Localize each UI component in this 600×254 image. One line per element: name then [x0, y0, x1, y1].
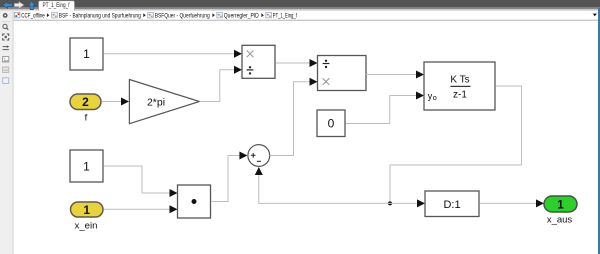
wire: junction to sum (minus input): [255, 167, 390, 203]
window right edge: [598, 8, 600, 254]
back arrow: [3, 2, 13, 9]
svg-text:1: 1: [557, 198, 564, 212]
toolbar separator: [2, 20, 11, 23]
wire: D:1 to outport: [480, 199, 544, 207]
toolbar icon: annotation image: [3, 57, 9, 62]
wire: integrator output feedback: [390, 86, 522, 203]
inport 1 x_ein: [71, 202, 104, 232]
product block: [178, 185, 211, 218]
tab PT_1_Eing_f: [39, 1, 75, 11]
wire: divide to divide2 input 1: [276, 59, 318, 67]
wire: f to gain: [102, 98, 130, 106]
svg-text:o: o: [433, 93, 437, 102]
wire: product to sum (plus input): [211, 152, 248, 202]
wire: constant 0 to integrator y0: [346, 92, 424, 124]
svg-text:D:1: D:1: [443, 199, 460, 211]
wire: junction to D:1: [390, 199, 425, 207]
breadcrumb item: BSF - Bahnplanung und Spurfuehrung: [52, 12, 146, 19]
breadcrumb item: Querregler_PID: [217, 12, 264, 19]
junction: [388, 201, 392, 205]
up arrow: [28, 1, 35, 10]
gain block 2*pi: [129, 80, 199, 124]
toolbar icon: annotation box (disabled): [3, 67, 9, 72]
svg-text:1: 1: [83, 203, 90, 217]
sum block: [248, 145, 270, 167]
toolbar icon: fit to view: [3, 34, 9, 40]
wire: sum to divide2 input 2: [270, 78, 318, 156]
divide block U2 (÷ over x): [318, 56, 367, 91]
inport 2 f: [70, 94, 101, 124]
svg-text:K Ts: K Ts: [450, 75, 469, 86]
forward arrow: [14, 2, 24, 9]
constant block 1 (top): [70, 38, 103, 70]
wire: divide2 to integrator: [366, 71, 424, 79]
svg-text:f: f: [85, 113, 88, 124]
toolbar icon: signal lines: [3, 45, 9, 49]
breadcrumb item: CCF_offline: [14, 12, 49, 19]
left toolbar: [0, 11, 14, 254]
svg-text:BSFQuer - Querfuehrung: BSFQuer - Querfuehrung: [155, 12, 210, 19]
svg-text:2: 2: [82, 95, 89, 109]
top tab bar: [0, 0, 600, 11]
svg-text:Querregler_PID: Querregler_PID: [224, 12, 259, 19]
toolbar icon: area box: [3, 78, 9, 84]
svg-text:1: 1: [83, 47, 90, 61]
svg-text:1: 1: [83, 160, 90, 174]
svg-text:x_aus: x_aus: [547, 215, 573, 226]
outport 1 x_aus: [544, 196, 577, 226]
svg-text:PT_1_Eing_f: PT_1_Eing_f: [43, 2, 70, 9]
svg-text:z-1: z-1: [453, 90, 467, 101]
wire: constant 1 to divide input 1: [104, 50, 242, 58]
discrete integrator K Ts/(z-1): [424, 62, 495, 110]
wire: x_ein to product input 2: [104, 205, 178, 213]
delay block D:1: [425, 191, 479, 217]
svg-text:BSF - Bahnplanung und Spurfueh: BSF - Bahnplanung und Spurfuehrung: [59, 12, 141, 19]
svg-text:x_ein: x_ein: [75, 221, 98, 232]
breadcrumb item: BSFQuer - Querfuehrung: [148, 12, 215, 19]
breadcrumb dropdown arrow: [593, 14, 597, 17]
constant block 0: [317, 110, 345, 137]
svg-text:PT_1_Eing_f: PT_1_Eing_f: [273, 12, 297, 19]
divide block U1 (x over ÷): [242, 45, 275, 78]
toolbar icon: zoom: [3, 24, 8, 29]
toolbar icon: hide/show: [3, 13, 8, 18]
constant block 1 (bottom): [70, 150, 103, 182]
breadcrumb item: PT_1_Eing_f: [266, 12, 297, 19]
svg-text:0: 0: [328, 117, 335, 131]
svg-text:CCF_offline: CCF_offline: [21, 12, 45, 19]
wire: constant 1 to product input 1: [104, 166, 178, 197]
breadcrumb bar: [0, 11, 600, 21]
wire: gain to divide input 2: [200, 66, 243, 102]
svg-text:2*pi: 2*pi: [147, 97, 165, 109]
